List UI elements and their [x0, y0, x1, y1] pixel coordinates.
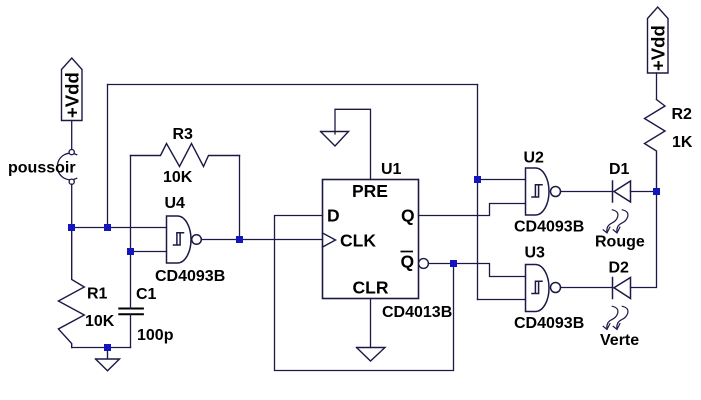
- svg-text:poussoir: poussoir: [8, 160, 76, 177]
- node ground R1/C1: [104, 344, 111, 351]
- svg-text:R2: R2: [672, 106, 693, 123]
- op-gate U3 CD4093B: [526, 265, 561, 312]
- svg-text:U2: U2: [524, 150, 545, 167]
- resistor R3: [131, 144, 240, 167]
- node Qbar: [450, 260, 457, 267]
- LED D1 arrows: [603, 210, 628, 233]
- svg-text:CD4093B: CD4093B: [514, 315, 584, 332]
- wire R1 bottom to C1 bottom: [72, 347, 131, 349]
- node top rail tap: [104, 224, 111, 231]
- resistor R1: [58, 228, 84, 348]
- wire top rail: [108, 84, 478, 86]
- wire vertical x107 to top rail: [107, 85, 109, 228]
- node U2 input / rail: [474, 176, 481, 183]
- svg-text:D2: D2: [609, 260, 630, 277]
- node pushbutton/R1: [68, 224, 75, 231]
- capacitor C1: [119, 309, 143, 315]
- svg-text:U1: U1: [381, 161, 402, 178]
- wire D1 anode to rail: [631, 191, 657, 193]
- Qbar bubble: [419, 259, 429, 269]
- ground under R1: [96, 348, 120, 371]
- power flag +Vdd left: [62, 58, 83, 121]
- wire U3 output to D2: [561, 287, 613, 289]
- flip-flop U1 box: [323, 180, 419, 299]
- svg-text:PRE: PRE: [352, 181, 388, 201]
- svg-text:10K: 10K: [85, 313, 115, 330]
- wire flag2 to R2: [656, 73, 658, 100]
- wire U4 bottom input: [131, 251, 167, 253]
- svg-text:CD4013B: CD4013B: [382, 304, 452, 321]
- Qbar overbar: [401, 251, 414, 253]
- wire U2 top input: [478, 179, 526, 181]
- ground above U1 (PRE): [321, 132, 349, 147]
- svg-text:D1: D1: [609, 161, 630, 178]
- svg-text:U3: U3: [525, 245, 546, 262]
- op-gate U4 CD4093B: [167, 216, 202, 263]
- wire Qbar to junction: [428, 263, 453, 265]
- svg-text:100p: 100p: [137, 327, 174, 344]
- svg-text:CLK: CLK: [340, 231, 376, 251]
- LED D2 arrows: [603, 306, 628, 329]
- pushbutton SW poussoir: [57, 150, 76, 185]
- LED D1: [613, 181, 631, 202]
- wire U2 output to D1: [561, 191, 613, 193]
- svg-text:1K: 1K: [672, 134, 693, 151]
- svg-text:D: D: [327, 206, 340, 226]
- wire Q to U2: [419, 204, 526, 216]
- svg-text:Q: Q: [401, 252, 415, 272]
- resistor R2: [645, 100, 666, 192]
- svg-text:CD4093B: CD4093B: [155, 268, 225, 285]
- svg-text:Q: Q: [401, 206, 415, 226]
- wire node to U4 top input: [72, 227, 167, 229]
- node D1/R2: [653, 188, 660, 195]
- ground under U1 (CLR): [357, 348, 386, 362]
- wire Qbar junction to U3 top input: [454, 264, 526, 277]
- wire C1 bottom: [130, 314, 132, 347]
- wire PRE net: [335, 109, 371, 179]
- svg-text:CD4093B: CD4093B: [514, 219, 584, 236]
- wire CLR net: [370, 299, 372, 348]
- wire flag1 to pushbutton: [71, 121, 73, 150]
- svg-text:+Vdd: +Vdd: [62, 72, 83, 118]
- node C1/U4 input: [127, 248, 134, 255]
- svg-text:Rouge: Rouge: [595, 234, 645, 251]
- wire R3 right leg: [239, 156, 241, 240]
- svg-text:R3: R3: [173, 126, 194, 143]
- op-gate U2 CD4093B: [526, 168, 561, 215]
- junction nodes (blue squares): [68, 176, 660, 351]
- wire R3 left leg: [130, 156, 132, 252]
- svg-text:Verte: Verte: [600, 332, 639, 349]
- wire U4 output to CLK: [201, 239, 322, 241]
- svg-text:R1: R1: [87, 286, 108, 303]
- svg-text:U4: U4: [165, 195, 186, 212]
- wire C1 top: [130, 252, 132, 309]
- svg-text:10K: 10K: [163, 169, 193, 186]
- wire D2 anode to rail: [631, 192, 657, 288]
- node U4 output: [236, 236, 243, 243]
- svg-text:C1: C1: [136, 286, 157, 303]
- wire U3 bottom input: [478, 299, 526, 301]
- svg-text:+Vdd: +Vdd: [648, 25, 669, 71]
- wire D loop: [275, 216, 454, 371]
- power flag +Vdd right: [648, 7, 669, 73]
- LED D2: [613, 278, 631, 299]
- svg-text:CLR: CLR: [353, 278, 389, 298]
- CLK input triangle: [323, 233, 336, 247]
- wire pushbutton to node: [71, 184, 73, 227]
- wire vertical x477 down: [477, 85, 479, 300]
